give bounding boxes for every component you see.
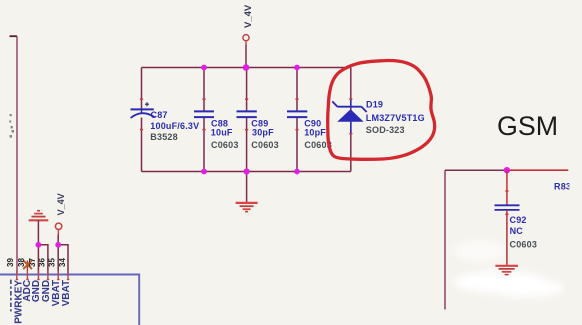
C87 labels bbox=[150, 110, 199, 131]
wires: VBAT pins 35/34 to V_4V bbox=[58, 245, 68, 275]
svg-text:C0603: C0603 bbox=[211, 140, 239, 150]
svg-text:R83: R83 bbox=[554, 181, 571, 191]
svg-text:NC: NC bbox=[510, 226, 524, 236]
power symbol V_4V (top) bbox=[243, 35, 249, 68]
svg-text:30pF: 30pF bbox=[252, 128, 274, 138]
wire: long vertical net to pin 39 (PWRKEY) bbox=[10, 36, 18, 274]
junction dot GND bbox=[36, 242, 42, 248]
svg-text:SOD-323: SOD-323 bbox=[366, 125, 405, 135]
svg-text:10pF: 10pF bbox=[304, 128, 326, 138]
capacitor C89 bbox=[237, 98, 257, 130]
red annotation loop around D19 bbox=[328, 61, 435, 160]
no-connect X on ADC bbox=[23, 260, 32, 269]
wire: C90 branch bbox=[296, 68, 298, 172]
svg-text:D19: D19 bbox=[366, 100, 383, 110]
svg-text:37: 37 bbox=[28, 258, 37, 267]
label R83 bbox=[554, 181, 571, 191]
connector body edge (blue) bbox=[0, 275, 139, 325]
svg-text:C92: C92 bbox=[510, 215, 527, 225]
wire: C89 branch bbox=[246, 68, 248, 172]
pin names (rotated, blue) bbox=[14, 280, 72, 324]
red pin tips bbox=[16, 279, 70, 280]
svg-text:B3528: B3528 bbox=[150, 132, 178, 142]
wire below C92 to ground bbox=[505, 210, 508, 265]
pin numbers (rotated) bbox=[6, 258, 67, 267]
junction dot VBAT bbox=[55, 242, 61, 248]
wire down to C92 bbox=[505, 170, 508, 205]
C88 labels bbox=[211, 119, 233, 138]
wires: GND pins 37/36 to ground bbox=[38, 245, 48, 275]
capacitor C92 bbox=[495, 205, 520, 210]
junction dot on right net bbox=[504, 167, 510, 173]
power symbol V_4V (left) bbox=[55, 223, 61, 245]
wire: C88 branch bbox=[203, 68, 205, 172]
junction dots on buses bbox=[201, 64, 300, 174]
C90 labels bbox=[304, 119, 326, 138]
svg-text:39: 39 bbox=[6, 258, 15, 267]
capacitor C88 bbox=[194, 98, 214, 130]
wire: D19 branch bbox=[350, 68, 352, 172]
ground (bottom right) bbox=[495, 266, 518, 275]
svg-text:35: 35 bbox=[48, 258, 57, 267]
pin stub ADC (pin 38) bbox=[26, 261, 28, 271]
D19 labels bbox=[366, 100, 425, 124]
svg-text:10uF: 10uF bbox=[211, 128, 233, 138]
svg-text:C0603: C0603 bbox=[510, 239, 538, 249]
svg-text:C87: C87 bbox=[151, 110, 168, 120]
wire: C87 branch bbox=[141, 68, 143, 172]
right box left edge wire bbox=[444, 170, 446, 309]
svg-text:36: 36 bbox=[38, 258, 47, 267]
leftover text specks at left edge bbox=[9, 114, 14, 138]
net label V_4V (top, vertical) bbox=[243, 4, 254, 28]
svg-text:C0603: C0603 bbox=[251, 140, 279, 150]
svg-text:100uF/6.3V: 100uF/6.3V bbox=[150, 121, 199, 131]
main parallel-capacitor box: top bus wire bbox=[142, 67, 351, 69]
GSM title bbox=[497, 111, 558, 141]
svg-text:LM3Z7V5T1G: LM3Z7V5T1G bbox=[366, 113, 425, 123]
net label V_4V (left, vertical) bbox=[56, 193, 66, 215]
ground (left, above connector) bbox=[29, 211, 49, 245]
watermark smudge bbox=[454, 240, 563, 297]
right net: horizontal wire bbox=[445, 169, 568, 171]
C92 labels bbox=[510, 215, 527, 236]
svg-text:38: 38 bbox=[17, 258, 26, 267]
svg-text:V_4V: V_4V bbox=[243, 4, 254, 28]
partial pin name at left edge bbox=[10, 280, 12, 312]
svg-text:VBAT: VBAT bbox=[61, 280, 72, 306]
capacitor C87 (polarized) bbox=[131, 98, 155, 130]
capacitor C90 bbox=[287, 98, 307, 130]
ground (center, below bus) bbox=[236, 172, 258, 212]
svg-text:GSM: GSM bbox=[497, 111, 558, 141]
zener diode D19 bbox=[332, 98, 366, 134]
connector pin stubs below edge bbox=[17, 271, 68, 281]
C89 labels bbox=[251, 119, 274, 138]
svg-text:34: 34 bbox=[58, 258, 67, 267]
bottom bus wire bbox=[142, 171, 351, 173]
svg-text:V_4V: V_4V bbox=[56, 193, 66, 215]
crop mask over R83 tail bbox=[569, 180, 582, 193]
